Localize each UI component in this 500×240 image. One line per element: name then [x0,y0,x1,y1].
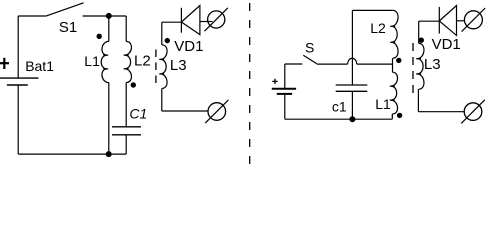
svg-text:c1: c1 [332,98,347,114]
plus sign right [272,80,277,82]
svg-text:S1: S1 [59,19,77,36]
inductor L1 [101,41,109,82]
svg-text:L1: L1 [84,53,100,69]
wire: switch to corner [83,15,127,17]
wire: L2 bottom to capacitor [125,83,127,127]
svg-text:L3: L3 [170,57,187,74]
svg-text:VD1: VD1 [174,38,203,55]
capacitor c1 [336,84,368,86]
wire: diode to terminal right [457,20,465,22]
terminal X2 circle [208,103,226,121]
svg-text:VD1: VD1 [432,36,461,53]
capacitor C1 [112,126,141,128]
battery right long plate [272,88,296,90]
wire: L3 right top lead [418,21,420,43]
wire: L1 bottom to rail [108,83,110,155]
wire: battery bottom lead [17,85,19,154]
terminal X1 circle [208,11,225,28]
terminal X3 circle [464,11,482,29]
wire: c1 bottom lead [351,91,353,119]
transformer core left [155,50,157,84]
L2 right polarity dot [396,58,401,63]
diode VD1 right cathode bar [438,7,440,34]
svg-text:L3: L3 [424,56,441,73]
separator dashed line [249,3,251,168]
wire: to bottom terminal [162,110,208,112]
wire: to bottom terminal right [418,111,464,113]
terminal X3 slash [462,8,486,32]
switch S1 blade [46,3,84,16]
battery Bat1 long plate [0,77,39,79]
switch S blade [303,55,317,64]
bottom node dot [106,151,112,157]
L2 polarity dot [131,82,136,87]
wire: L3 bottom lead [161,89,163,112]
wire: L2-L1 junction vertical [392,58,394,72]
svg-text:S: S [305,39,314,55]
wire: top rail to switch [18,15,45,17]
L3 polarity dot [165,38,170,43]
c1 bottom node dot [349,116,355,122]
wire: to switch [285,63,303,65]
wire: L3 right bottom lead [417,89,419,112]
wire: node A down to L1 [108,16,110,41]
terminal X4 slash [461,100,485,124]
wire: battery bottom lead right [284,95,286,119]
terminal X2 slash [205,100,228,123]
wire: L3 to diode right [419,20,440,22]
wire: L1 bottom to rail [391,114,393,119]
wire: bottom rail right [285,118,393,120]
wire hop over c1 lead [348,58,357,64]
wire: battery top lead right [284,64,286,89]
terminal X4 circle [464,103,482,121]
wire: bottom rail [18,153,126,155]
svg-text:L2: L2 [134,53,151,70]
diode VD1 cathode bar [180,8,182,33]
wire: battery top lead [17,16,19,78]
node A dot [106,13,112,19]
wire: L3 top lead [161,22,163,45]
wire: hop to junction [357,63,393,65]
svg-text:L2: L2 [370,20,386,36]
wire: L3 to diode [162,21,182,23]
diode VD1 triangle [181,6,200,35]
inductor L1 right [391,72,398,114]
battery Bat1 short plate [7,84,28,86]
wire: top rail right [352,9,392,11]
inductor L3 [160,45,167,89]
diode VD1 right triangle [439,6,456,36]
L3 right polarity dot [419,38,424,43]
L1 polarity dot [97,34,102,39]
battery right short plate [277,93,292,95]
transformer core right [412,43,414,94]
plus sign left [0,62,9,64]
svg-text:C1: C1 [129,106,147,122]
wire: switch to hop [317,63,348,65]
inductor L2 [125,41,132,82]
inductor L3 right [417,43,424,89]
wire: corner down to L2 [125,16,127,41]
wire: diode to terminal [200,21,213,23]
svg-text:L1: L1 [375,96,391,112]
wire: C1 bottom lead [125,135,127,154]
terminal X1 slash [205,8,228,31]
wire: c1 top lead (tall vertical) [351,10,353,85]
svg-text:Bat1: Bat1 [25,58,54,74]
inductor L2 right [391,10,398,58]
L1 right polarity dot [397,113,402,118]
